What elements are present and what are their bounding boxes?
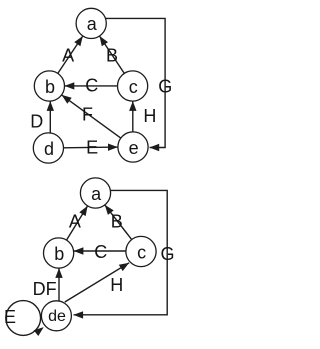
svg-text:d: d — [44, 139, 54, 159]
wire edge B top — [100, 36, 125, 73]
node b (bottom) — [44, 238, 74, 268]
node de (bottom) — [41, 301, 71, 331]
arrowhead C bottom — [74, 247, 84, 254]
arrowhead G bottom — [73, 311, 83, 318]
directed graph figure: original graph (top) and its contraction (bottom) — [0, 0, 191, 349]
svg-text:E: E — [86, 138, 98, 158]
svg-text:b: b — [54, 244, 64, 264]
arrowhead A bottom — [79, 206, 87, 216]
node d (top) — [33, 133, 63, 163]
arrowhead H bottom — [119, 263, 129, 271]
arrowhead B bottom — [105, 205, 114, 215]
svg-text:c: c — [137, 242, 146, 262]
svg-text:c: c — [129, 77, 138, 97]
wire edge G top — [105, 18, 165, 147]
arrowhead D top — [47, 101, 54, 111]
svg-text:B: B — [111, 212, 123, 232]
svg-text:H: H — [143, 106, 156, 126]
wire edge F top — [62, 95, 121, 138]
svg-text:E: E — [4, 307, 16, 327]
wire edge E top — [64, 146, 118, 149]
arrowhead E top — [108, 144, 118, 151]
svg-text:a: a — [91, 184, 102, 204]
wire edge H top — [132, 101, 134, 132]
node c (bottom) — [126, 236, 156, 266]
arrowhead A top — [74, 36, 83, 46]
svg-text:C: C — [85, 76, 98, 96]
wire edge D top — [49, 101, 51, 133]
wire edge A bottom — [67, 206, 88, 240]
arrowhead B top — [100, 36, 109, 46]
arrowhead DF bottom — [55, 268, 62, 278]
svg-text:A: A — [62, 46, 74, 66]
arrowhead F top — [62, 95, 72, 104]
svg-text:b: b — [45, 77, 55, 97]
node e (top) — [118, 132, 148, 162]
svg-text:H: H — [110, 275, 123, 295]
wire edge E self-loop (bottom) — [6, 301, 41, 336]
node c (top) — [118, 71, 148, 101]
wire edge G bottom — [74, 190, 168, 314]
node b (top) — [34, 71, 64, 101]
wire edge H bottom — [65, 263, 129, 302]
arrowhead C top — [65, 82, 75, 89]
wire edge B bottom — [105, 205, 132, 240]
node a (top) — [76, 8, 106, 38]
node a (bottom) — [80, 178, 110, 208]
svg-text:G: G — [160, 244, 174, 264]
arrowhead E loop — [34, 327, 44, 336]
svg-text:D: D — [30, 112, 43, 132]
arrowhead G top — [149, 144, 159, 151]
wire edge C bottom — [74, 250, 126, 252]
svg-text:F: F — [82, 105, 93, 125]
wire edge A top — [58, 36, 83, 73]
svg-text:G: G — [158, 76, 172, 96]
svg-text:e: e — [129, 138, 139, 158]
svg-text:B: B — [106, 46, 118, 66]
wire edge DF bottom — [58, 268, 60, 301]
svg-text:C: C — [94, 242, 107, 262]
svg-text:A: A — [69, 212, 81, 232]
wire edge C top — [65, 85, 118, 87]
svg-text:DF: DF — [33, 279, 57, 299]
svg-text:de: de — [48, 308, 66, 325]
arrowhead H top — [129, 101, 136, 111]
svg-text:a: a — [87, 14, 98, 34]
